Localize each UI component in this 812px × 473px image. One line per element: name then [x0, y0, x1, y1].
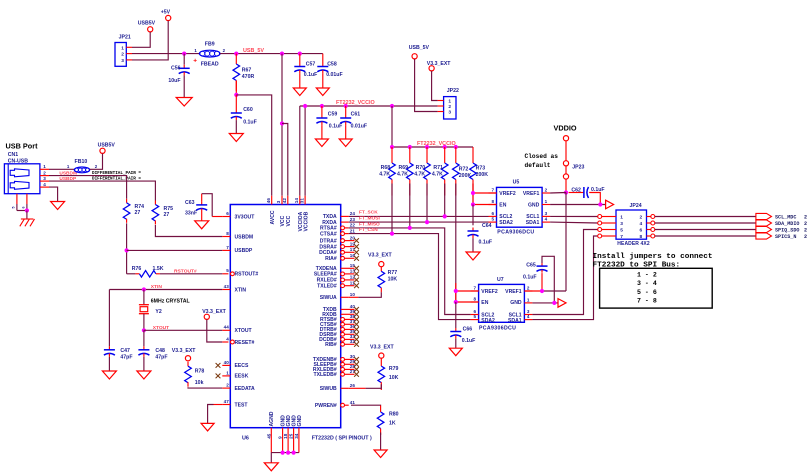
svg-text:R78: R78 [195, 368, 205, 374]
svg-text:Install jumpers to connect: Install jumpers to connect [593, 253, 713, 261]
capacitor C57 [299, 54, 301, 63]
junction USBDP row [125, 248, 129, 252]
svg-text:VDDIO: VDDIO [554, 124, 577, 133]
wire USB_5V to JP22 pin3 [415, 59, 438, 112]
svg-text:EESK: EESK [235, 374, 249, 380]
svg-text:0.01uF: 0.01uF [326, 72, 342, 78]
U5 left pin stubs [489, 192, 497, 194]
svg-text:16: 16 [350, 253, 356, 258]
svg-text:TXLEDB#: TXLEDB# [313, 372, 336, 378]
junction XTOUT/C48 [142, 328, 146, 332]
junction crystal top [142, 287, 146, 291]
ferrite bead FB10 [74, 167, 89, 173]
no-connect X pin 29 [354, 362, 359, 367]
svg-text:JP21: JP21 [119, 35, 131, 41]
svg-text:C48: C48 [155, 348, 165, 354]
svg-text:8: 8 [491, 199, 494, 204]
svg-text:20: 20 [350, 235, 356, 240]
wire U5 VREF1 to node [550, 192, 566, 195]
svg-text:FB9: FB9 [205, 42, 215, 48]
svg-text:4: 4 [527, 314, 530, 319]
svg-text:SPICS_N: SPICS_N [775, 234, 796, 240]
svg-text:1: 1 [43, 164, 46, 169]
ferrite bead FB9 [199, 50, 220, 57]
svg-text:1 - 2: 1 - 2 [637, 272, 657, 279]
no-connect X pin 17 [354, 250, 359, 255]
ground C48 [137, 371, 151, 379]
svg-text:FBEAD: FBEAD [201, 61, 219, 67]
wire TEST to ground [214, 404, 223, 406]
svg-text:RESET#: RESET# [235, 340, 255, 346]
svg-text:R72: R72 [459, 167, 469, 173]
ground C58 [316, 88, 329, 96]
wire R73 bottom to U5 VREF2/EN [472, 184, 474, 205]
svg-text:TXLED#: TXLED# [317, 284, 337, 290]
pin stubs JP21 [126, 46, 132, 48]
wire USB_5V to VCC pins [281, 54, 283, 196]
svg-text:VREF2: VREF2 [481, 289, 498, 295]
svg-text:47pF: 47pF [120, 355, 132, 361]
svg-text:U6: U6 [242, 435, 249, 441]
svg-text:27: 27 [135, 210, 141, 216]
wire node to AVCC [236, 95, 271, 196]
capacitor C48 47pF [143, 330, 145, 346]
svg-text:FT2232_VCCIO: FT2232_VCCIO [417, 141, 456, 147]
wire R68 bottom to FT_CSN row [391, 184, 393, 234]
junction C59 [320, 104, 324, 108]
capacitor C62 [569, 192, 584, 194]
svg-text:7 - 8: 7 - 8 [637, 297, 657, 304]
svg-text:43: 43 [224, 284, 230, 289]
ground C57 [293, 88, 306, 96]
svg-text:2: 2 [545, 187, 548, 192]
svg-text:5: 5 [474, 314, 477, 319]
capacitor C60 [235, 95, 237, 110]
wire C63 to 3V3OUT [202, 194, 213, 217]
wire net FT2232_VCCIO rail [300, 105, 438, 107]
U7 left pin stubs [471, 290, 479, 292]
svg-text:1: 1 [527, 297, 530, 302]
wire VDDIO vertical to U7 VREF1 [565, 193, 567, 292]
svg-text:10k: 10k [195, 380, 204, 386]
wire V3.3_EXT to JP22 pin1 [432, 71, 438, 101]
svg-text:0.01uF: 0.01uF [351, 124, 367, 130]
svg-text:1: 1 [545, 199, 548, 204]
off-page connector SPICS_N [756, 233, 772, 239]
junction gnd collector [286, 451, 290, 455]
wire crystal bottom to XTOUT row [143, 314, 145, 331]
svg-text:5: 5 [491, 217, 494, 222]
svg-text:6: 6 [491, 211, 494, 216]
connector JP21 [115, 43, 126, 67]
junction U5 VREF2 [471, 191, 475, 195]
svg-text:9: 9 [278, 436, 283, 439]
svg-text:26: 26 [350, 383, 356, 388]
svg-text:AVCC: AVCC [270, 210, 276, 224]
svg-text:5: 5 [620, 227, 623, 233]
junction rail2 [390, 145, 394, 149]
svg-text:C56: C56 [171, 66, 181, 72]
svg-text:10K: 10K [388, 276, 398, 282]
svg-text:1K: 1K [389, 420, 396, 426]
wire net FT_MOSI [349, 221, 489, 223]
svg-text:14: 14 [294, 198, 299, 204]
junction R71/FT_SCK [443, 214, 447, 218]
chassis ground symbol [21, 218, 34, 220]
wire JP21 pin2 to USB_5V rail [132, 53, 199, 55]
svg-text:RSTOUT#: RSTOUT# [174, 268, 197, 274]
svg-text:0.1uF: 0.1uF [329, 124, 343, 130]
svg-text:4: 4 [226, 336, 229, 341]
svg-text:3V3OUT: 3V3OUT [235, 214, 256, 220]
junction VCC split [280, 121, 284, 125]
CN1 pin stubs [40, 168, 49, 170]
svg-text:34: 34 [294, 433, 299, 439]
svg-text:25: 25 [289, 433, 294, 439]
wire R72 to U7 VREF2 [455, 283, 457, 302]
svg-text:XTIN: XTIN [235, 287, 247, 293]
wire chip ground collector [271, 452, 299, 454]
svg-text:RSTOUT#: RSTOUT# [235, 272, 259, 278]
svg-text:15: 15 [350, 263, 356, 268]
connector JP22 [444, 97, 456, 119]
no-connect X pin 36 [354, 327, 359, 332]
resistor R73 [472, 147, 474, 163]
no-connect X pin 11 [354, 283, 359, 288]
svg-text:C59: C59 [328, 111, 338, 117]
junction gnd collector [281, 451, 285, 455]
svg-text:EECS: EECS [235, 363, 249, 369]
junction C65 gnd [552, 301, 556, 305]
svg-text:USBDM: USBDM [235, 234, 254, 240]
svg-text:default: default [525, 162, 551, 169]
wire U7 SCL1 to JP24 pin5 [532, 230, 597, 315]
svg-text:FT_MOSI: FT_MOSI [359, 215, 380, 221]
capacitor C63 33nF [201, 194, 203, 202]
resistor R74 [126, 199, 128, 203]
svg-text:C58: C58 [327, 62, 337, 68]
svg-text:18: 18 [283, 433, 288, 439]
svg-text:2: 2 [804, 221, 807, 227]
IC U6 FT2232D box [230, 205, 340, 428]
svg-text:U5: U5 [513, 180, 520, 186]
wire USBDM line to R74 [49, 176, 127, 199]
wire FB10 to USB5V [90, 154, 103, 170]
resistor R79 [380, 358, 382, 366]
wire PWREN# to R80 [351, 404, 381, 406]
wire SIWUA to R77 [349, 296, 359, 298]
svg-text:USBDP: USBDP [235, 248, 253, 254]
wire U7 GND [532, 302, 558, 304]
svg-text:V3.3_EXT: V3.3_EXT [370, 344, 394, 350]
wire R71 bottom to FT_SCK row [444, 184, 446, 217]
no-connect X pin 12 [354, 278, 359, 283]
wire R72 bottom to U7 VREF2/EN [455, 184, 457, 303]
svg-text:200K: 200K [476, 172, 489, 178]
no-connect X pin 16 [354, 256, 359, 261]
wire USBDP line to R75 [49, 181, 155, 200]
capacitor C65 [541, 273, 543, 291]
svg-text:47: 47 [224, 399, 230, 404]
svg-text:2: 2 [640, 214, 643, 220]
wire JP24 pin 2 to off-page SCL_MDC [655, 216, 756, 218]
svg-text:XTIN: XTIN [151, 284, 163, 290]
wire C62 to GND row [589, 193, 600, 205]
svg-text:13: 13 [350, 269, 356, 274]
svg-text:C63: C63 [185, 200, 195, 206]
capacitor C59 [321, 106, 323, 115]
wire USBDP row [127, 249, 223, 251]
ground C61 [339, 139, 352, 147]
svg-text:4: 4 [43, 182, 46, 187]
svg-text:EN: EN [499, 203, 506, 209]
svg-text:4.7K: 4.7K [432, 172, 443, 178]
no-connect X pin 39 [354, 312, 359, 317]
svg-text:R77: R77 [388, 270, 398, 276]
JP24 right pin stubs [651, 215, 655, 219]
no-connect X pin 15 [354, 266, 359, 271]
U6 top pins AVCC VCC VCC VCCIOA VCCIOB [271, 196, 273, 205]
no-connect X pin 27 [354, 372, 359, 377]
junction gnd collector [292, 451, 296, 455]
svg-text:11: 11 [350, 280, 355, 285]
ground C59 [315, 139, 328, 147]
wire R67 bottom to node [235, 80, 237, 95]
svg-text:FB10: FB10 [75, 159, 88, 165]
svg-text:PWREN#: PWREN# [315, 403, 337, 409]
junction C56 tap [182, 52, 186, 56]
svg-text:AGND: AGND [269, 411, 275, 426]
svg-text:47pF: 47pF [155, 355, 167, 361]
no-connect X EECS [216, 363, 221, 368]
svg-text:1.5K: 1.5K [153, 266, 164, 272]
ground C60 [229, 134, 243, 142]
svg-text:3: 3 [545, 211, 548, 216]
svg-text:33nF: 33nF [185, 211, 197, 217]
svg-text:USB_5V: USB_5V [243, 48, 264, 54]
svg-text:6: 6 [22, 207, 26, 209]
svg-text:R68: R68 [381, 165, 391, 171]
svg-text:C61: C61 [351, 111, 361, 117]
svg-text:45: 45 [266, 433, 271, 439]
no-connect X EESK [216, 374, 221, 379]
svg-text:C47: C47 [120, 348, 130, 354]
svg-text:470R: 470R [242, 74, 255, 80]
junction R69/FT_MISO [408, 226, 412, 230]
svg-text:2: 2 [527, 285, 530, 290]
wire R76 to RSTOUT# pin [160, 273, 222, 275]
svg-text:12: 12 [350, 275, 356, 280]
svg-text:USB_5V: USB_5V [409, 45, 430, 51]
svg-text:R70: R70 [416, 165, 426, 171]
svg-text:40: 40 [224, 360, 230, 365]
wire U7 SDA1 to JP24 pin7 [532, 236, 597, 320]
svg-text:2: 2 [804, 228, 807, 234]
svg-text:7: 7 [474, 285, 477, 290]
wire XTOUT row [144, 329, 222, 331]
ground TEST [201, 423, 214, 431]
pin stubs JP22 [438, 100, 444, 102]
svg-text:2: 2 [121, 52, 124, 58]
svg-text:VCC: VCC [286, 215, 292, 226]
U6 left pins [222, 216, 230, 218]
ground U5 GND arrow [606, 200, 614, 209]
wire rail down to VCCIOA pin [299, 106, 301, 196]
svg-text:0.1uF: 0.1uF [479, 240, 493, 246]
svg-text:1: 1 [620, 214, 623, 220]
capacitor C56 10uF electrolytic [183, 54, 185, 65]
junction U7 EN [454, 300, 458, 304]
resistor R80 [380, 406, 382, 413]
svg-text:C66: C66 [463, 327, 473, 333]
svg-text:5: 5 [12, 207, 16, 209]
svg-text:PCA9306DCU: PCA9306DCU [479, 326, 516, 332]
junction rail2 [443, 145, 447, 149]
svg-text:SIWUB: SIWUB [320, 386, 337, 392]
ground R80 [374, 450, 387, 458]
svg-text:8: 8 [640, 234, 643, 240]
no-connect X pin 20 [354, 238, 359, 243]
no-connect X pin 28 [354, 367, 359, 372]
svg-text:17: 17 [350, 247, 356, 252]
JP24 left pin stubs [598, 215, 602, 219]
no-connect X pin 33 [354, 337, 359, 342]
svg-text:6: 6 [226, 211, 229, 216]
wire VCCIOB pin [304, 106, 306, 196]
svg-text:GND: GND [297, 415, 303, 427]
svg-text:27: 27 [350, 369, 356, 374]
svg-text:Y2: Y2 [155, 309, 161, 315]
ground U7 GND arrow [558, 299, 566, 308]
wire JP23 to VREF1 node [565, 179, 567, 192]
resistor R78 [187, 362, 189, 367]
junction VCCIOB [303, 104, 307, 108]
svg-text:0.1uF: 0.1uF [304, 72, 318, 78]
svg-text:3: 3 [276, 200, 281, 203]
svg-text:C57: C57 [306, 62, 316, 68]
svg-text:2: 2 [804, 234, 807, 240]
wire net FT_MISO [349, 228, 471, 315]
svg-text:44: 44 [224, 325, 230, 330]
svg-text:19: 19 [350, 241, 356, 246]
svg-text:RIA#: RIA# [325, 256, 337, 262]
svg-text:SCL_MDC: SCL_MDC [775, 215, 796, 221]
wire rail2 FT2232_VCCIO [392, 106, 473, 147]
svg-text:C60: C60 [243, 107, 253, 113]
capacitor C58 [322, 54, 324, 63]
junction shield [25, 208, 29, 212]
svg-text:+: + [193, 58, 197, 65]
wire V3.3_EXT to RESET# [207, 320, 223, 343]
svg-text:1: 1 [121, 45, 124, 51]
svg-text:2: 2 [448, 104, 451, 110]
wire net USB_5V rail [220, 53, 323, 55]
svg-text:C65: C65 [526, 262, 536, 268]
off-page connector SDA_MDIO [756, 220, 772, 226]
U5 right pin stubs [542, 192, 550, 194]
ground C63 [195, 221, 209, 229]
svg-text:FT2232_VCCIO: FT2232_VCCIO [336, 100, 375, 106]
svg-text:XTOUT: XTOUT [153, 325, 169, 331]
svg-text:JP24: JP24 [630, 203, 642, 209]
power pin VDDIO [563, 136, 568, 141]
svg-text:5: 5 [226, 268, 229, 273]
level-shifter U7 PCA9306DCU [479, 284, 525, 322]
svg-text:TEST: TEST [235, 402, 249, 408]
svg-text:3: 3 [620, 221, 623, 227]
wire C65 top loop to GND [542, 256, 554, 303]
no-connect X pin 19 [354, 244, 359, 249]
junction C65/VREF1 [540, 289, 544, 293]
resistor R75 [154, 201, 156, 205]
svg-text:SIWUA: SIWUA [320, 295, 337, 301]
wire R75 bottom to USBDM row [155, 225, 222, 237]
resistor R77 [380, 267, 382, 272]
svg-text:SDA1: SDA1 [508, 318, 522, 324]
svg-text:USB Port: USB Port [6, 141, 39, 150]
wire XTIN row [109, 289, 222, 291]
wire R70 bottom to FT_MOSI row [426, 184, 428, 223]
ground C47 [102, 371, 116, 379]
wire R80 to ground [380, 433, 382, 451]
wire R74 node to R76 [127, 273, 136, 275]
op-amp/level-shifter U5 PCA9306DCU [497, 187, 543, 227]
svg-text:C62: C62 [571, 188, 581, 194]
junction R70/FT_MOSI [425, 220, 429, 224]
svg-text:R76: R76 [132, 266, 142, 272]
svg-text:42: 42 [282, 198, 287, 204]
wire JP24 pin 8 to off-page SPICS_N [655, 235, 756, 237]
resistor R72 [455, 147, 457, 163]
svg-text:Closed as: Closed as [525, 153, 559, 160]
svg-text:0.1uF: 0.1uF [243, 120, 257, 126]
wire U5 SDA1 to JP24 pin3 [550, 221, 598, 224]
wire U5 SCL1 to JP24 pin1 [550, 215, 598, 217]
svg-text:24: 24 [350, 211, 356, 216]
no-connect X pin 35 [354, 332, 359, 337]
svg-text:5 - 6: 5 - 6 [637, 289, 657, 296]
svg-text:7: 7 [620, 234, 623, 240]
svg-text:8: 8 [226, 231, 229, 236]
svg-text:200K: 200K [459, 173, 472, 179]
svg-text:3: 3 [448, 110, 451, 116]
svg-text:4.7K: 4.7K [379, 172, 390, 178]
svg-text:C64: C64 [482, 223, 492, 229]
svg-text:10K: 10K [389, 375, 399, 381]
svg-text:+5V: +5V [161, 10, 171, 16]
svg-text:R79: R79 [389, 366, 399, 372]
svg-text:GND: GND [528, 203, 540, 209]
capacitor C66 [455, 302, 457, 328]
svg-text:EN: EN [481, 300, 488, 306]
svg-text:R71: R71 [433, 165, 443, 171]
svg-text:JP22: JP22 [447, 88, 459, 94]
no-connect X pin 38 [354, 317, 359, 322]
svg-text:V3.3_EXT: V3.3_EXT [368, 253, 392, 259]
svg-text:FT_CSN: FT_CSN [359, 227, 378, 233]
svg-text:3 - 4: 3 - 4 [637, 280, 657, 287]
svg-text:USB5V: USB5V [98, 142, 116, 148]
no-connect X pin 32 [354, 342, 359, 347]
svg-text:SDA2: SDA2 [499, 220, 513, 226]
junction C61 [344, 104, 348, 108]
svg-text:4.7K: 4.7K [414, 172, 425, 178]
svg-text:3: 3 [43, 176, 46, 181]
wire CN1 pin1 to FB10 [49, 168, 74, 170]
wire R72 to U7 EN [456, 301, 479, 303]
junction C57 tap [298, 52, 302, 56]
svg-text:SDA1: SDA1 [526, 220, 540, 226]
